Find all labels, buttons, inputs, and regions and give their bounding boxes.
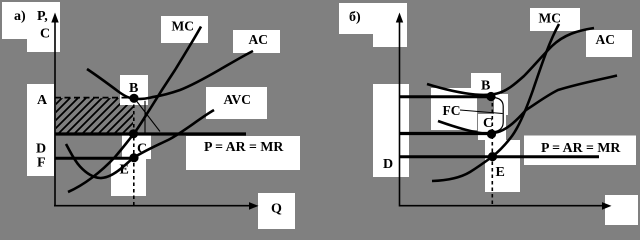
- FC leader line: [460, 110, 503, 114]
- thin vertical line under AC: [144, 101, 146, 133]
- label box AVC: [206, 87, 267, 119]
- svg-text:P = AR = MR: P = AR = MR: [541, 140, 621, 155]
- label box E: [111, 157, 146, 196]
- label box AC: [233, 30, 280, 53]
- point B: [486, 92, 495, 101]
- brace FC span: [494, 98, 504, 132]
- svg-text:AVC: AVC: [224, 92, 252, 107]
- svg-text:MC: MC: [539, 11, 562, 26]
- svg-text:P = AR = MR: P = AR = MR: [204, 139, 284, 154]
- label box B: [120, 75, 148, 105]
- label box C: [478, 114, 506, 140]
- svg-text:б): б): [349, 10, 361, 25]
- curve MC (panel b): [432, 24, 559, 181]
- svg-text:F: F: [37, 156, 46, 171]
- svg-text:E: E: [120, 162, 129, 177]
- label box D: [373, 84, 409, 177]
- svg-text:D: D: [383, 157, 393, 172]
- label box E: [485, 140, 520, 192]
- vertical axis arrowhead: [396, 13, 403, 23]
- label box A D F: [27, 84, 54, 176]
- svg-text:а): а): [14, 9, 26, 24]
- svg-text:AC: AC: [249, 32, 269, 47]
- curve MC (panel a): [68, 27, 201, 193]
- label box a/P top-left: [2, 2, 60, 39]
- price line P=AR=MR (level D): [55, 132, 246, 135]
- svg-text:MC: MC: [172, 19, 195, 34]
- label box FC: [431, 88, 477, 130]
- label box b top-left: [339, 3, 407, 34]
- svg-text:C: C: [137, 142, 147, 157]
- thin drop line from B: [137, 101, 161, 132]
- label box AC: [586, 30, 632, 57]
- point B: [129, 94, 138, 103]
- svg-text:C: C: [483, 116, 493, 131]
- svg-text:P,: P,: [37, 9, 48, 24]
- svg-text:D: D: [36, 142, 46, 157]
- svg-text:Q: Q: [271, 202, 282, 217]
- svg-text:B: B: [481, 79, 490, 94]
- svg-text:A: A: [37, 93, 48, 108]
- svg-text:B: B: [129, 81, 138, 96]
- point C: [129, 129, 138, 138]
- point E: [488, 152, 497, 161]
- curve AC (panel a): [87, 51, 253, 99]
- label box P=AR=MR: [186, 136, 300, 170]
- hatched loss rectangle: [56, 98, 133, 133]
- horizontal axis: [399, 205, 604, 207]
- vertical axis: [399, 20, 401, 207]
- label box P,C column: [27, 2, 60, 52]
- curve AVC (panel a): [66, 110, 214, 178]
- line at level F: [55, 157, 136, 160]
- label box P=AR=MR: [524, 136, 636, 166]
- vertical axis arrowhead: [51, 13, 58, 23]
- curve AC (panel b): [427, 28, 594, 95]
- label box B: [471, 73, 501, 94]
- svg-text:E: E: [496, 165, 505, 180]
- dashed quantity line through B C E: [133, 98, 135, 206]
- white patch right of dashed line: [494, 94, 508, 115]
- svg-text:AC: AC: [596, 32, 616, 47]
- label box MC: [530, 8, 580, 31]
- curve AVC (panel b): [438, 76, 617, 134]
- dashed price level line A-B: [55, 97, 131, 99]
- label box b extension: [373, 34, 407, 47]
- label box C: [122, 135, 151, 159]
- point C: [487, 129, 496, 138]
- svg-text:C: C: [40, 27, 50, 42]
- label box Q empty: [605, 195, 638, 225]
- horizontal axis arrowhead: [602, 202, 612, 210]
- level line through B: [400, 95, 492, 98]
- svg-text:FC: FC: [443, 103, 461, 118]
- level line through C: [400, 132, 494, 135]
- price line P=AR=MR (level D): [400, 155, 599, 158]
- label box Q: [258, 193, 295, 229]
- vertical axis: [54, 20, 56, 207]
- dashed quantity line through B C E: [491, 97, 493, 206]
- horizontal axis: [54, 205, 251, 207]
- point E: [129, 153, 138, 162]
- label box MC: [161, 16, 208, 43]
- horizontal axis arrowhead: [249, 202, 259, 210]
